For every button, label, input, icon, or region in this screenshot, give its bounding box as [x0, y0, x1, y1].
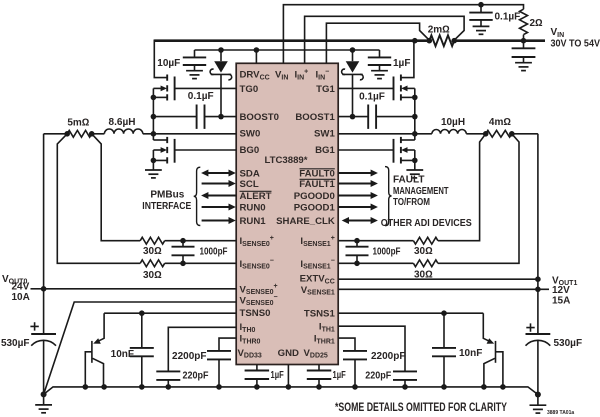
- wire ITH1 with capacitor 220pF: [338, 326, 417, 387]
- svg-text:FAULT0: FAULT0: [299, 169, 335, 180]
- resistor 30 Ohm ISENSE1- filter: [338, 260, 438, 280]
- wire SW0 to inductor: [44, 133, 237, 135]
- wire DRVCC rail: [195, 47, 380, 53]
- label PMBus INTERFACE: [142, 190, 191, 213]
- svg-text:TSNS0: TSNS0: [240, 308, 271, 319]
- svg-text:MANAGEMENT: MANAGEMENT: [393, 186, 449, 197]
- svg-text:3889 TA01a: 3889 TA01a: [547, 410, 574, 416]
- transistor Q2 bottom NMOS channel 0: [151, 137, 175, 170]
- svg-text:PMBus: PMBus: [150, 190, 184, 201]
- svg-text:8.6µH: 8.6µH: [109, 117, 136, 128]
- note SOME DETAILS OMITTED FOR CLARITY: [335, 402, 507, 414]
- wire bottom ground rail: [44, 387, 538, 395]
- schottky diode DRVCC to BOOST0: [210, 50, 232, 117]
- capacitor 1uF VDD33: [245, 365, 284, 387]
- wire VSENSE1 and VOUT1 terminal stub: [338, 288, 549, 290]
- IC right column pin labels: [276, 84, 335, 346]
- fault management arrows FAULT0 FAULT1 PGOOD0 PGOOD1: [338, 170, 378, 177]
- wire ITHR0 with capacitor 2200pF: [172, 338, 236, 387]
- svg-text:0.1µF: 0.1µF: [495, 12, 521, 23]
- svg-text:1µF: 1µF: [271, 370, 284, 381]
- wire BG0 gate lead: [175, 149, 237, 151]
- ground under bottom NMOS ch0: [145, 170, 162, 178]
- svg-text:GND: GND: [278, 348, 299, 359]
- transistor Q5 bottom NMOS channel 1: [394, 137, 418, 170]
- svg-text:RUN0: RUN0: [240, 203, 266, 214]
- IC name label LTC3889*: [264, 155, 307, 166]
- capacitor 10uF DRVCC bypass: [157, 50, 206, 71]
- svg-text:10nF: 10nF: [459, 348, 482, 359]
- svg-text:TO/FROM: TO/FROM: [393, 197, 430, 208]
- wire TG0 gate lead: [175, 87, 237, 89]
- schottky diode DRVCC to BOOST1: [342, 50, 364, 117]
- svg-text:30V TO 54V: 30V TO 54V: [551, 38, 600, 49]
- svg-text:1000pF: 1000pF: [200, 247, 228, 258]
- op-amp/controller IC U1 LTC3889 body: [236, 63, 338, 364]
- ground symbol bottom right: [530, 395, 547, 414]
- svg-text:530µF: 530µF: [1, 338, 30, 349]
- svg-text:30Ω: 30Ω: [143, 270, 162, 281]
- terminal VOUT0 24V 10A: [2, 274, 44, 303]
- svg-text:0.1µF: 0.1µF: [359, 92, 385, 103]
- capacitor 0.1uF BOOST1: [338, 92, 415, 129]
- wire ISENSE0+ kelvin tap: [92, 134, 141, 241]
- svg-text:10A: 10A: [12, 292, 30, 303]
- capacitor 1uF DRVCC right bypass: [368, 50, 411, 71]
- transistor Q1 top NMOS channel 0: [153, 40, 174, 101]
- polarity + mark left 530uF: [30, 322, 38, 330]
- svg-text:2200pF: 2200pF: [371, 351, 405, 362]
- capacitor 0.1uF BOOST0: [153, 91, 236, 129]
- svg-text:INTERFACE: INTERFACE: [142, 201, 191, 212]
- wire TSNS1: [338, 310, 483, 316]
- svg-text:SCL: SCL: [240, 179, 259, 190]
- svg-text:2mΩ: 2mΩ: [428, 25, 450, 36]
- svg-text:24V: 24V: [12, 282, 30, 293]
- svg-text:2200pF: 2200pF: [172, 351, 206, 362]
- svg-text:OTHER ADI DEVICES: OTHER ADI DEVICES: [381, 218, 472, 229]
- ground under 10uF: [186, 71, 203, 79]
- svg-text:0.1µF: 0.1µF: [188, 91, 214, 102]
- transistor Q6 PNP temp sense channel 1: [483, 313, 503, 387]
- capacitor 530uF output channel 0: [1, 334, 56, 394]
- resistor 2mOhm input current sense: [428, 25, 454, 47]
- svg-text:5mΩ: 5mΩ: [67, 117, 89, 128]
- IC bottom row pin labels VDD33 GND VDD25: [238, 348, 328, 360]
- svg-text:220pF: 220pF: [365, 371, 391, 382]
- svg-text:SHARE_CLK: SHARE_CLK: [276, 216, 335, 227]
- wire VIN pin to RC filter (top wire): [283, 5, 523, 64]
- svg-text:530µF: 530µF: [554, 338, 583, 349]
- ground under bottom NMOS ch1: [406, 170, 423, 178]
- svg-text:1µF: 1µF: [333, 370, 346, 381]
- ground under 1uF: [371, 71, 388, 79]
- resistor 5mOhm output sense channel 0: [64, 117, 94, 137]
- svg-text:12V: 12V: [552, 285, 570, 296]
- wire ISENSE1+ kelvin tap: [438, 134, 486, 241]
- overlines for FAULT0 FAULT1: [300, 169, 336, 180]
- arrow SHARE_CLK bidirectional: [342, 217, 378, 224]
- IC left column pin labels: [240, 84, 279, 346]
- overline for ALERT: [240, 190, 272, 192]
- wire GND pin to rail: [287, 365, 289, 387]
- capacitor 0.1uF VIN filter (top): [469, 2, 520, 27]
- inductor 8.6uH channel 0: [104, 117, 142, 134]
- resistor 30 Ohm ISENSE0- filter: [140, 260, 236, 281]
- wire SW0 node vertical chain: [151, 88, 157, 140]
- wire SW1 node vertical chain: [412, 88, 418, 140]
- svg-text:BG1: BG1: [315, 145, 335, 156]
- svg-text:220pF: 220pF: [183, 371, 209, 382]
- svg-text:30Ω: 30Ω: [143, 246, 162, 257]
- svg-text:SW0: SW0: [240, 128, 261, 139]
- brace for PMBus interface: [194, 167, 201, 225]
- transistor Q3 PNP temp sense channel 0: [85, 313, 104, 387]
- brace for fault management: [385, 167, 392, 226]
- wire BG1 gate lead: [338, 149, 393, 151]
- node junction dots on rail: [412, 38, 526, 44]
- svg-text:BOOST1: BOOST1: [295, 112, 335, 123]
- label FAULT MANAGEMENT TO/FROM OTHER ADI DEVICES: [381, 174, 472, 229]
- IC top row pin labels DRVCC VIN IIN+ IIN-: [240, 68, 330, 81]
- svg-text:SW1: SW1: [314, 128, 335, 139]
- resistor 30 Ohm ISENSE1+ filter: [338, 237, 438, 257]
- svg-text:PGOOD1: PGOOD1: [294, 203, 336, 214]
- wire SW1 to inductor: [338, 133, 538, 135]
- capacitor 1000pF ISENSE0 filter: [172, 238, 228, 266]
- wire DRVCC pin stub: [255, 50, 257, 63]
- svg-text:TG1: TG1: [316, 84, 335, 95]
- capacitor input bypass at VIN terminal: [512, 41, 536, 63]
- wire ITH0 with capacitor 220pF: [156, 327, 236, 387]
- svg-text:BOOST0: BOOST0: [240, 112, 279, 123]
- svg-text:1µF: 1µF: [393, 58, 410, 69]
- wire ISENSE0- kelvin tap: [57, 134, 140, 263]
- svg-text:10µH: 10µH: [441, 117, 465, 128]
- resistor 2 Ohm VIN filter: [520, 9, 544, 41]
- resistor 30 Ohm ISENSE0+ filter: [140, 237, 236, 257]
- wire TSNS0: [104, 310, 236, 316]
- polarity + mark right 530uF: [526, 323, 534, 331]
- svg-text:PGOOD0: PGOOD0: [294, 191, 335, 202]
- PMBus interface arrows SDA SCL ALERT RUN0 RUN1: [201, 170, 236, 177]
- capacitor 1000pF ISENSE1 filter: [346, 238, 401, 266]
- svg-text:RUN1: RUN1: [240, 216, 267, 227]
- svg-text:TSNS1: TSNS1: [304, 309, 336, 320]
- capacitor 1uF VDD25: [307, 365, 346, 387]
- note 3889 TA01a: [547, 410, 574, 416]
- resistor 4mOhm output sense channel 1: [483, 117, 515, 137]
- capacitor 10nF TSNS0: [111, 313, 154, 387]
- svg-text:SDA: SDA: [240, 169, 260, 180]
- svg-text:10nF: 10nF: [111, 349, 134, 360]
- svg-text:1000pF: 1000pF: [373, 246, 401, 257]
- svg-text:TG0: TG0: [240, 84, 259, 95]
- wire VIN rail (thick top rail): [154, 39, 545, 42]
- wire VOUT0 node vertical: [41, 134, 47, 334]
- wire VSENSE0- remote ground sense diagonal: [44, 302, 237, 394]
- wire VOUT1 node vertical: [535, 134, 541, 334]
- inductor 10uH channel 1: [432, 117, 466, 134]
- wire TG1 gate lead: [338, 87, 393, 89]
- capacitor 530uF output channel 1: [526, 334, 583, 395]
- wire IIN- sense (to left side of 2mOhm): [326, 23, 429, 63]
- svg-text:LTC3889*: LTC3889*: [264, 155, 307, 166]
- svg-text:2Ω: 2Ω: [530, 18, 544, 29]
- ground symbol bottom left: [35, 394, 52, 412]
- svg-text:BG0: BG0: [240, 145, 260, 156]
- transistor Q4 top NMOS channel 1: [394, 40, 415, 101]
- svg-text:30Ω: 30Ω: [414, 246, 433, 257]
- svg-text:ALERT: ALERT: [240, 191, 272, 202]
- capacitor 10nF TSNS1: [432, 313, 482, 387]
- wire EXTVCC to VOUT1: [338, 278, 538, 280]
- wire IIN+ sense (to right side of 2mOhm): [305, 16, 465, 63]
- wire ISENSE1- kelvin tap: [438, 134, 519, 263]
- svg-text:FAULT1: FAULT1: [299, 179, 335, 190]
- svg-text:15A: 15A: [552, 296, 570, 307]
- svg-text:4mΩ: 4mΩ: [489, 117, 511, 128]
- svg-text:10µF: 10µF: [157, 58, 180, 69]
- wire ITHR1 with capacitor 2200pF: [338, 338, 405, 387]
- ground at VIN input: [515, 63, 532, 71]
- terminal VIN 30V TO 54V: [551, 27, 600, 49]
- svg-text:FAULT: FAULT: [393, 174, 424, 185]
- svg-text:*SOME DETAILS OMITTED FOR CLAR: *SOME DETAILS OMITTED FOR CLARITY: [335, 402, 507, 414]
- terminal VOUT1 12V 15A: [552, 275, 577, 306]
- wire VSENSE0+: [44, 288, 237, 290]
- ground under 0.1uF filter cap: [473, 26, 490, 34]
- junction dots on ground rail: [41, 384, 541, 397]
